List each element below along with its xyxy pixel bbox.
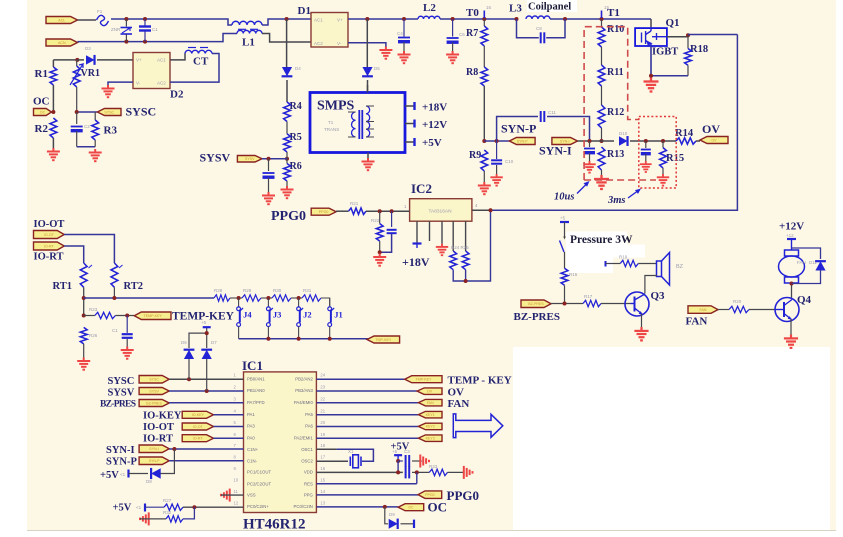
capacitor C15 (406, 466, 410, 478)
wire R5-R6 (286, 152, 288, 164)
svg-text:C1: C1 (152, 27, 158, 32)
svg-text:SYSV: SYSV (108, 388, 135, 399)
svg-text:SYSC: SYSC (104, 110, 114, 114)
svg-text:SYN-I: SYN-I (539, 144, 572, 158)
ground below Q3 (634, 327, 648, 340)
red dashed box 10us (584, 27, 656, 180)
svg-text:IO-OT: IO-OT (34, 219, 65, 230)
svg-text:D2: D2 (170, 89, 184, 101)
switch J1 (329, 298, 331, 307)
svg-text:T1: T1 (328, 120, 334, 125)
svg-text:D10: D10 (619, 131, 628, 136)
arrow 3ms (628, 190, 639, 198)
svg-text:BZ-PRES: BZ-PRES (100, 400, 136, 410)
wire R21 to IC2 (366, 210, 410, 212)
wire ACL to fuse (78, 19, 97, 21)
wire SYSV row (169, 390, 243, 392)
resistor R24 (450, 251, 457, 270)
node junction VR1 bottom (75, 110, 79, 114)
terminal BZ-PRES mcu (139, 400, 169, 407)
terminal ACL (46, 17, 78, 24)
switch J3 (267, 298, 269, 307)
wire R14 to OV (696, 140, 700, 142)
wire R6 to ground (286, 181, 288, 186)
svg-text:C1: C1 (112, 328, 118, 333)
white patch pressure body2 (566, 258, 613, 274)
ground below R3 (89, 149, 102, 161)
resistor R13 (598, 147, 605, 170)
svg-text:IO-OT: IO-OT (193, 425, 204, 429)
resistor R1 (50, 67, 57, 85)
svg-text:R11: R11 (607, 67, 624, 78)
switch J4 (238, 298, 240, 307)
svg-text:PPG0: PPG0 (447, 488, 480, 503)
svg-text:16: 16 (320, 466, 325, 471)
wire IO-RT row (214, 437, 244, 439)
wire OSC1 row (316, 448, 336, 450)
node junction motor bottom (790, 282, 794, 286)
svg-text:R2: R2 (35, 123, 49, 135)
wire Q3 collector to buzzer (645, 276, 657, 294)
node junction IC2 out (489, 208, 493, 212)
wire BZ-PRES row (169, 402, 243, 404)
capacitor C13 (645, 141, 647, 148)
svg-text:BZ: BZ (676, 264, 684, 270)
wire OC top rail (53, 59, 77, 61)
resistor R12 (598, 105, 605, 128)
wire L2 to T0 (440, 18, 517, 20)
wire FAN row out (316, 402, 418, 404)
node junction key3 (297, 296, 301, 300)
transformer CT winding (185, 50, 212, 53)
resistor R19 buzzer (605, 261, 607, 267)
svg-text:C3: C3 (404, 449, 410, 454)
capacitor C10 (496, 141, 498, 159)
svg-text:D8: D8 (146, 479, 152, 484)
svg-text:KEY1: KEY1 (426, 413, 435, 417)
+5V tick clamp (189, 333, 207, 348)
wire R24/R25 bottom loop (453, 210, 490, 281)
wire R13 to ground (601, 170, 603, 175)
diode D5 (366, 19, 368, 68)
svg-text:CT: CT (193, 56, 209, 68)
svg-text:X1: X1 (348, 449, 354, 454)
svg-text:R26: R26 (89, 333, 98, 338)
svg-text:IO-KEY: IO-KEY (192, 413, 205, 417)
wire R29-R30 (261, 297, 272, 299)
ground below C6 (446, 51, 459, 63)
svg-text:3ms: 3ms (607, 195, 626, 206)
node junction D8 (172, 447, 176, 451)
terminal SYSC top-left (97, 109, 121, 116)
inductor L2 (418, 16, 440, 19)
svg-text:J3: J3 (273, 310, 282, 320)
microcontroller IC1 box (244, 372, 317, 513)
svg-text:R12: R12 (607, 107, 624, 118)
svg-text:PPG0: PPG0 (319, 210, 329, 214)
svg-text:J2: J2 (303, 310, 312, 320)
svg-text:+12: +12 (786, 233, 794, 238)
resistor R33 (429, 469, 447, 475)
svg-text:PA2/EMI1: PA2/EMI1 (294, 436, 314, 441)
varistor VR1 (76, 60, 78, 66)
resistor R22 (379, 211, 381, 223)
svg-text:C8: C8 (536, 26, 542, 31)
wire Q4 emitter (790, 319, 792, 335)
svg-text:FAN: FAN (700, 308, 707, 312)
wire L1 bottom to D1 AC2 (262, 34, 311, 43)
node junction D5 top (365, 17, 369, 21)
terminal PPG0 in (311, 208, 336, 215)
diode D10 (619, 136, 628, 145)
svg-text:AC2: AC2 (314, 41, 323, 46)
wire R13 node to D10 (602, 140, 615, 142)
resonant capacitor C7 loop (517, 19, 539, 38)
svg-text:R20: R20 (733, 299, 742, 304)
svg-text:SYN-P: SYN-P (501, 122, 536, 136)
SMPS +5V stub (405, 141, 414, 143)
ground below D2 (102, 85, 115, 97)
capacitor C1 key (126, 316, 128, 333)
terminal IO-OT (34, 231, 65, 239)
bridge rectifier D1 (311, 13, 348, 48)
svg-text:HT46R12: HT46R12 (243, 517, 306, 533)
wire SYN row left (484, 140, 509, 142)
svg-text:IO-KEY: IO-KEY (143, 410, 182, 421)
resistor R26 (80, 327, 87, 344)
resistor R20 (729, 306, 749, 312)
terminal SYN-P (509, 138, 535, 145)
resistor R11 (598, 65, 605, 86)
sheet bottom edge (27, 530, 836, 532)
wire R4-R5 (286, 122, 288, 134)
capacitor CX (144, 19, 146, 26)
resistor R3 (94, 112, 96, 120)
buzzer BZ (657, 261, 662, 277)
coupling loop C11 (497, 117, 538, 142)
svg-text:R8: R8 (466, 67, 478, 78)
svg-text:FAN: FAN (427, 401, 434, 405)
+5V tick d8 (127, 470, 129, 478)
svg-text:R6: R6 (290, 161, 302, 172)
ground below Q4 (784, 335, 798, 348)
node junction keyrail2 (297, 337, 301, 341)
svg-text:IGBT: IGBT (652, 47, 678, 58)
wire SYN-P row (169, 460, 243, 462)
terminal BZ-PRES (521, 300, 551, 308)
svg-text:KEY2: KEY2 (426, 425, 435, 429)
wire TEMP-KEY row out (316, 378, 404, 380)
svg-text:PC0/C2IN+: PC0/C2IN+ (247, 504, 269, 509)
svg-text:D5: D5 (374, 66, 380, 71)
node junction R15 top (661, 139, 665, 143)
node junction C3 (396, 459, 400, 463)
wire PPG row out (316, 494, 418, 496)
svg-text:PB1/AN0: PB1/AN0 (247, 388, 265, 393)
capacitor C3 (398, 460, 403, 462)
svg-text:KEY3: KEY3 (426, 436, 435, 440)
node junction RT2 bottom (112, 296, 116, 300)
svg-text:AC2: AC2 (157, 81, 166, 86)
terminal SYSV (237, 156, 262, 163)
svg-text:V+: V+ (136, 58, 142, 63)
svg-text:PB2/AN2: PB2/AN2 (295, 376, 313, 381)
wire RES row (316, 483, 416, 485)
wire D10 to R15 (630, 140, 676, 142)
capacitor C5 at SYSV (268, 159, 270, 171)
wire SYN-I row (169, 448, 243, 450)
svg-text:+5V: +5V (422, 137, 442, 149)
wire R2 to ground (52, 138, 54, 148)
white patch Coilpanel (527, 0, 577, 12)
svg-text:R30: R30 (273, 288, 282, 293)
svg-text:SYSV: SYSV (200, 151, 231, 165)
svg-text:<1: <1 (136, 505, 142, 510)
ground below C10 (490, 174, 502, 186)
resistor R32 (140, 518, 166, 520)
big arrow (453, 414, 503, 438)
svg-text:BZ-PRES: BZ-PRES (146, 401, 162, 405)
IC2 pin4 wire (452, 221, 454, 251)
terminal FAN out (418, 399, 442, 406)
crystal X1 (350, 455, 361, 468)
svg-text:+5: +5 (560, 216, 566, 221)
svg-text:AC1: AC1 (157, 58, 166, 63)
svg-text:OC: OC (408, 506, 414, 510)
svg-text:R23: R23 (89, 307, 98, 312)
svg-text:BZ-PRES: BZ-PRES (514, 311, 560, 323)
wire emitter to R18 bottom (651, 75, 688, 77)
wire loop right side (491, 35, 738, 211)
node junction TEMP-KEY row (82, 314, 86, 318)
node junction VDD (396, 470, 400, 474)
ground below R26 (77, 358, 90, 370)
wire R11-R12 (601, 86, 603, 105)
svg-text:IC2: IC2 (411, 181, 432, 196)
svg-text:SYSC: SYSC (126, 105, 157, 119)
svg-text:12: 12 (234, 500, 239, 505)
svg-text:PC1/C1OUT: PC1/C1OUT (247, 470, 271, 475)
svg-text:R17: R17 (584, 294, 593, 299)
ground below SYSV cap (262, 192, 275, 204)
node junction SYSV cap (267, 157, 271, 161)
transistor Q4 (775, 298, 799, 322)
node junction keyrail1 (266, 337, 270, 341)
capacitor C11 (541, 111, 545, 122)
terminal TEMP-KEY out (367, 336, 400, 343)
svg-text:C6: C6 (459, 32, 465, 37)
SMPS +12V stub (405, 123, 414, 125)
svg-text:PA0: PA0 (247, 436, 255, 441)
svg-text:OSC2: OSC2 (301, 458, 313, 463)
svg-text:SYSC: SYSC (149, 378, 159, 382)
resistor R30 (272, 295, 291, 301)
svg-text:IO-RT: IO-RT (34, 252, 64, 263)
ground below Q1 (644, 78, 659, 92)
svg-text:C10: C10 (505, 159, 514, 164)
capacitor C2 (76, 112, 78, 124)
wire fuse to L1 (live) (111, 19, 232, 25)
wire R8 down to SYN-P node (483, 86, 485, 141)
node junction D6 (187, 377, 191, 381)
node junction C14 top (390, 209, 394, 213)
terminal KEY1 out (418, 411, 442, 418)
wire D5 to SMPS (367, 85, 369, 93)
terminal IO-RT mcu (182, 435, 213, 442)
wire OSC2 row (316, 460, 348, 462)
svg-text:PA6: PA6 (305, 424, 313, 429)
terminal SYSV mcu (139, 388, 169, 395)
terminal IO-RT (34, 242, 65, 250)
resistor R29 (242, 295, 261, 301)
svg-text:D7: D7 (211, 340, 217, 345)
node junction key2 (266, 296, 270, 300)
wire L3 to T1 (550, 18, 651, 20)
svg-text:10us: 10us (554, 192, 574, 203)
wire IO-OT row (214, 426, 244, 428)
ground below R15 (657, 174, 669, 186)
svg-text:22: 22 (320, 396, 325, 401)
wire FAN row (718, 309, 729, 311)
wire row5 out (316, 426, 418, 428)
svg-text:20: 20 (320, 420, 325, 425)
terminal SYN-I mcu (139, 445, 169, 453)
node junction R18 top (686, 33, 690, 37)
wire key bottom rail (239, 338, 367, 341)
node junction C4 top (402, 17, 406, 21)
wire VR1 to SYSC (77, 111, 98, 113)
svg-text:+12V: +12V (779, 221, 804, 233)
IC2 pin1 +18V (416, 221, 418, 243)
svg-text:PA7/PFD: PA7/PFD (247, 400, 265, 405)
IC2 pin2 stub (429, 221, 431, 241)
svg-text:R29: R29 (243, 288, 252, 293)
node T0 (482, 17, 486, 21)
svg-text:14: 14 (320, 489, 325, 494)
svg-text:R22: R22 (371, 218, 380, 223)
diode D9 branch (385, 507, 388, 524)
wire IO-KEY row (214, 414, 244, 416)
node junction R22 top (378, 209, 382, 213)
sideways ground R32 (140, 512, 149, 525)
svg-text:+12V: +12V (422, 119, 447, 131)
svg-text:OV: OV (702, 122, 720, 136)
svg-text:PA4/EMI0: PA4/EMI0 (294, 400, 314, 405)
svg-text:T0: T0 (466, 7, 479, 19)
svg-text:+5V: +5V (100, 470, 119, 481)
svg-text:PC2/C2OUT: PC2/C2OUT (247, 481, 271, 486)
svg-text:19: 19 (320, 432, 325, 437)
svg-text:D4: D4 (295, 66, 301, 71)
svg-text:ZNR: ZNR (111, 27, 121, 32)
svg-text:R7: R7 (466, 28, 478, 39)
node junction OC diode (383, 505, 387, 509)
resistor R25 (462, 251, 469, 270)
resistor R18 (687, 35, 689, 48)
node junction BZ-PRES (563, 302, 567, 306)
IC2 pin5 wire (465, 221, 467, 251)
svg-text:IO-RT: IO-RT (44, 244, 55, 248)
svg-text:T1: T1 (607, 7, 620, 19)
svg-text:OC: OC (428, 500, 448, 515)
wire D2 V- to ground (108, 82, 133, 85)
terminal OV out (417, 388, 442, 395)
node T1 (600, 17, 604, 21)
wire R28-R29 (230, 297, 242, 299)
node junction D4 top (285, 17, 289, 21)
node junction C6 (451, 17, 455, 21)
resistor R27 (145, 506, 164, 508)
svg-text:PB3/AN3: PB3/AN3 (295, 388, 313, 393)
wire D2 AC1 to CT (170, 54, 185, 60)
svg-text:TMP-KEY: TMP-KEY (415, 378, 432, 382)
svg-text:VSS: VSS (247, 493, 256, 498)
svg-text:R31: R31 (303, 288, 312, 293)
resistor R21 (349, 208, 367, 214)
wire IC2 output (472, 209, 491, 211)
svg-text:D9: D9 (389, 512, 395, 517)
inductor L3 coilpanel (526, 16, 550, 19)
svg-text:24: 24 (320, 373, 325, 378)
svg-text:F1: F1 (97, 9, 103, 14)
ground below R2 (47, 148, 60, 160)
wire key resistor row (84, 297, 214, 299)
node junction live-CX (143, 17, 147, 21)
node junction L3 cap left (515, 17, 519, 21)
wire CT to D2 AC2 (170, 54, 219, 83)
wire IO-RT to RT1 (64, 246, 84, 263)
node junction R22 bottom (378, 250, 382, 254)
svg-text:Pressure 3W: Pressure 3W (570, 234, 633, 246)
svg-text:R32: R32 (163, 510, 172, 515)
node junction R33 (415, 470, 419, 474)
terminal KEY2 out (418, 423, 442, 430)
wire row6 out (316, 437, 418, 439)
ground below R9 (478, 182, 491, 194)
svg-text:D1: D1 (298, 5, 311, 17)
svg-text:PC0/C2IN: PC0/C2IN (294, 504, 313, 509)
wire R31 to J1 (321, 298, 330, 306)
sideways ground R33 (464, 466, 473, 479)
svg-text:+5: +5 (392, 449, 398, 454)
resistor R15 (662, 141, 664, 148)
transformer CT coupling dashes (188, 47, 208, 49)
svg-text:R27: R27 (163, 498, 172, 503)
resistor R6 (284, 164, 291, 182)
wire BZ-PRES row (551, 303, 583, 305)
terminal IO-OT mcu (182, 423, 213, 430)
svg-text:+18V: +18V (402, 255, 430, 269)
white patch lower-right (513, 347, 830, 530)
terminal OV (700, 137, 728, 144)
wire R9 to ground (483, 171, 485, 182)
svg-text:AC1: AC1 (314, 18, 323, 23)
svg-text:10: 10 (234, 478, 239, 483)
svg-text:17: 17 (320, 455, 325, 460)
white patch pressure body (566, 245, 645, 258)
svg-text:R19: R19 (619, 255, 628, 260)
VSS ground (221, 489, 230, 502)
resistor R31 (302, 295, 321, 301)
node junction SYSV (285, 157, 289, 161)
svg-text:TA8316AN: TA8316AN (428, 209, 452, 215)
resistor R14 (676, 138, 696, 144)
node junction SYN-I (588, 139, 592, 143)
wire motor to Q4 (791, 283, 793, 298)
wire OC row out (316, 506, 398, 508)
ground below C1 (121, 347, 134, 359)
svg-text:TEMP - KEY: TEMP - KEY (448, 375, 512, 387)
